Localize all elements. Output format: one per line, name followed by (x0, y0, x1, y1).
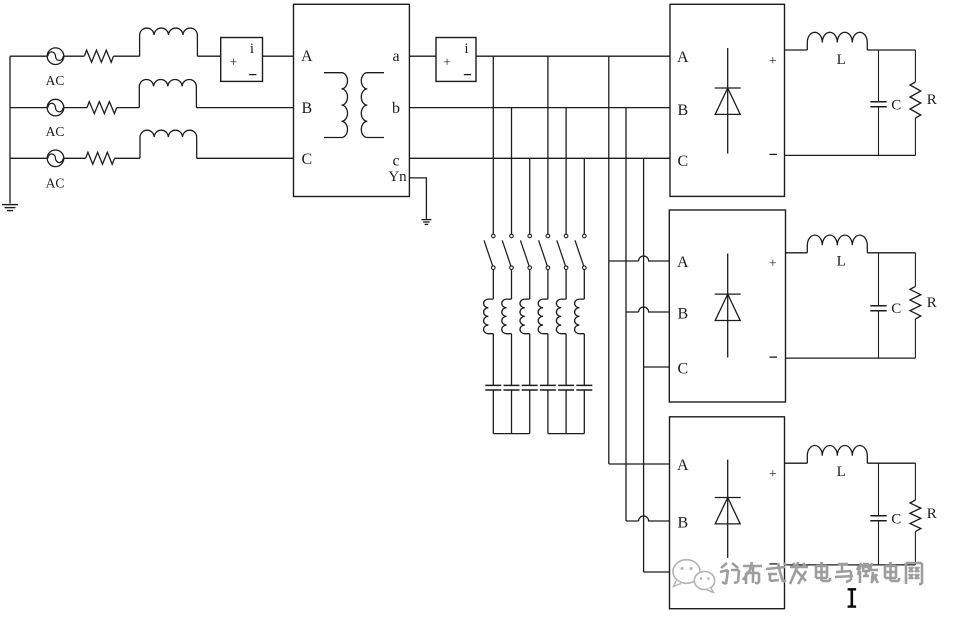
wire left neutral bus (9, 56, 11, 203)
svg-text:C: C (677, 153, 688, 170)
wire rectifier 2 input C (644, 366, 670, 368)
rectifier U3 box (670, 417, 785, 609)
svg-text:L: L (837, 52, 846, 68)
switch S2 (510, 234, 514, 238)
svg-text:L: L (837, 253, 846, 269)
svg-text:+: + (769, 467, 777, 482)
svg-text:+: + (769, 257, 777, 272)
load resistor R3o (914, 463, 916, 500)
svg-text:R: R (927, 506, 937, 522)
filter capacitor Cf3 (522, 384, 538, 386)
resistor R2 (87, 102, 117, 114)
filter capacitor Cf2 (504, 384, 520, 386)
wire rectifier U1 - output (785, 154, 916, 156)
svg-text:A: A (677, 49, 689, 66)
svg-text:A: A (677, 457, 689, 474)
svg-text:Yn: Yn (388, 169, 407, 185)
current sensor i1 (221, 38, 263, 82)
wire inductor Lf3 to capacitor (529, 334, 531, 386)
wire net a (409, 55, 436, 57)
filter capacitor Cf6 (576, 384, 592, 386)
wire inductor Lf6 to capacitor (583, 334, 585, 386)
wire net b feed vertical (625, 108, 627, 521)
svg-text:C: C (677, 361, 688, 378)
rectifier U1 box (670, 4, 785, 196)
svg-text:B: B (677, 306, 688, 323)
svg-text:B: B (301, 100, 312, 117)
wire rectifier U3 + output (785, 462, 808, 464)
transformer secondary winding (361, 73, 384, 138)
svg-text:C: C (891, 301, 901, 317)
diode D2 (727, 254, 729, 358)
transformer T1 box (294, 4, 410, 196)
wire net b (409, 107, 670, 109)
rectifier U2 box (669, 210, 785, 402)
filter inductor Lf1 (484, 299, 494, 334)
svg-text:+: + (769, 54, 777, 69)
svg-text:b: b (392, 100, 400, 117)
transformer primary winding (324, 73, 348, 138)
wire filter group 1 common bar (493, 433, 529, 435)
filter capacitor Cf4 (540, 384, 556, 386)
wire filter branch 6 drop (583, 158, 585, 234)
svg-text:c: c (392, 152, 399, 169)
ground G2 (421, 219, 431, 221)
wire capacitor Cf1 down (492, 390, 494, 434)
wire capacitor Cf3 down (529, 390, 531, 434)
switch S4 (546, 234, 550, 238)
filter inductor Lf5 (556, 299, 566, 334)
filter inductor Lf2 (502, 299, 512, 334)
watermark WeChat logo (673, 560, 715, 593)
svg-text:AC: AC (46, 73, 65, 88)
svg-text:C: C (891, 97, 901, 113)
resistor R1 (84, 50, 113, 62)
wire switch S5 to inductor (565, 270, 567, 300)
switch S3 (528, 234, 532, 238)
wire rectifier U3 - output (785, 564, 916, 566)
wire switch S2 to inductor (511, 270, 513, 300)
wire Yn to ground (409, 178, 426, 219)
svg-text:L: L (837, 464, 846, 480)
resistor R3 (86, 152, 115, 164)
wire inductor Lf2 to capacitor (511, 334, 513, 386)
wire capacitor Cf4 down (547, 390, 549, 434)
switch S6 (583, 234, 587, 238)
wire filter branch 1 drop (492, 56, 494, 234)
wire capacitor Cf2 down (511, 390, 513, 434)
wire filter branch 2 drop (511, 108, 513, 235)
AC source V3 (47, 150, 64, 167)
wire net a feed vertical (608, 56, 610, 464)
diode D1 (727, 48, 729, 154)
wire phase 2 (10, 107, 47, 109)
wire phase 3 (10, 157, 47, 159)
filter inductor Lf3 (520, 299, 530, 334)
wire capacitor Cf6 down (583, 390, 585, 434)
svg-text:i: i (464, 41, 468, 57)
current sensor i2 (436, 38, 476, 82)
watermark text 分布式发电与微电网 (720, 562, 922, 584)
ground G1 (2, 204, 18, 206)
filter inductor Lf4 (538, 299, 548, 334)
wire net c (409, 157, 670, 159)
wire rectifier 3 input A (609, 463, 670, 465)
wire inductor Lf5 to capacitor (565, 334, 567, 386)
output capacitor C1o (878, 50, 880, 102)
output capacitor C3o (878, 463, 880, 516)
wire rectifier U2 - output (786, 357, 916, 359)
AC source V2 (47, 99, 64, 116)
svg-text:AC: AC (46, 124, 65, 139)
svg-text:+: + (443, 55, 451, 70)
inductor L2 (139, 79, 196, 107)
svg-text:AC: AC (46, 175, 65, 190)
wire phase 1 (10, 55, 47, 57)
wire filter branch 4 drop (547, 56, 549, 234)
wire L to load top (867, 49, 915, 51)
wire rectifier 3 input B (hop over c) (626, 516, 670, 521)
output inductor L3o (807, 446, 867, 464)
output capacitor C2o (878, 253, 880, 306)
svg-text:R: R (927, 295, 937, 311)
svg-text:C: C (301, 151, 312, 168)
diode D3 (727, 460, 729, 558)
load resistor R2o (914, 253, 916, 287)
inductor L1 (140, 28, 198, 56)
wire filter branch 5 drop (565, 108, 567, 235)
svg-text:B: B (677, 102, 688, 119)
AC source V1 (47, 48, 64, 65)
wire inductor Lf4 to capacitor (547, 334, 549, 386)
filter inductor Lf6 (575, 299, 585, 334)
output inductor L2o (807, 235, 867, 253)
svg-text:A: A (677, 254, 689, 271)
svg-text:R: R (927, 92, 937, 108)
wire capacitor Cf5 down (565, 390, 567, 434)
svg-text:a: a (392, 48, 399, 65)
wire switch S4 to inductor (547, 270, 549, 300)
switch S5 (564, 234, 568, 238)
svg-text:+: + (230, 55, 238, 70)
wire inductor Lf1 to capacitor (492, 334, 494, 386)
load resistor R1o (914, 50, 916, 82)
svg-text:C: C (891, 511, 901, 527)
wire switch S3 to inductor (529, 270, 531, 300)
wire rectifier U2 + output (786, 252, 808, 254)
wire L to load top (867, 462, 915, 464)
wire switch S1 to inductor (492, 270, 494, 300)
wire filter branch 3 drop (529, 158, 531, 234)
output inductor L1o (807, 32, 867, 50)
wire filter group 2 common bar (548, 433, 584, 435)
svg-text:A: A (301, 48, 313, 65)
wire rectifier U1 + output (785, 49, 808, 51)
wire L to load top (867, 252, 915, 254)
filter capacitor Cf5 (558, 384, 574, 386)
wire rectifier 2 input B (hop over c) (626, 307, 669, 312)
filter capacitor Cf1 (485, 384, 501, 386)
svg-text:B: B (677, 515, 688, 532)
wire rectifier 2 input A (hop over c) (609, 256, 670, 261)
text I-beam cursor (850, 590, 853, 607)
wire rectifier 3 input C (644, 571, 670, 573)
switch S1 (492, 234, 496, 238)
inductor L3 (140, 130, 197, 158)
wire net c feed vertical (643, 158, 645, 572)
svg-text:i: i (250, 41, 254, 57)
wire switch S6 to inductor (583, 270, 585, 300)
